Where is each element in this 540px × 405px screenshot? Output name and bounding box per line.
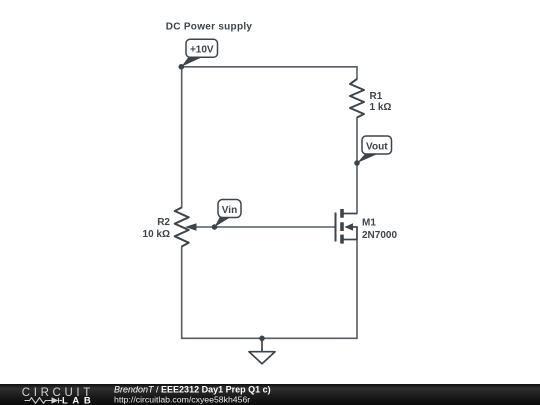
potentiometer R2 bbox=[175, 208, 189, 247]
M1 channel dash top bbox=[340, 209, 344, 218]
M1 drain lead bbox=[343, 213, 357, 215]
svg-text:DC Power supply: DC Power supply bbox=[166, 22, 253, 33]
M1 channel dash bottom bbox=[340, 235, 344, 244]
M1 body lead bbox=[346, 227, 357, 240]
net flag Vout bbox=[354, 136, 391, 166]
net flag Vin bbox=[212, 200, 241, 230]
svg-text:+10V: +10V bbox=[190, 44, 214, 55]
svg-text:R1: R1 bbox=[370, 91, 383, 102]
M1 source lead bbox=[343, 239, 357, 241]
wire left upper (+10V node to R2 top) bbox=[181, 67, 183, 208]
wire left lower (R2 bottom to bottom rail) bbox=[181, 247, 183, 339]
CircuitLab logo resistor+diode glyph bbox=[25, 398, 63, 404]
svg-text:2N7000: 2N7000 bbox=[362, 230, 397, 241]
svg-text:1 kΩ: 1 kΩ bbox=[370, 102, 392, 113]
wire gate (pot wiper to M1 gate) bbox=[194, 226, 336, 228]
svg-text:BrendonT / EEE2312 Day1 Prep Q: BrendonT / EEE2312 Day1 Prep Q1 c) bbox=[114, 385, 271, 395]
ground junction dot bbox=[259, 336, 265, 342]
M1 channel dash middle bbox=[340, 222, 344, 231]
ground bbox=[249, 338, 275, 364]
svg-text:R2: R2 bbox=[157, 217, 170, 228]
resistor R1 bbox=[350, 79, 364, 118]
wire bottom rail bbox=[182, 337, 357, 339]
svg-text:10 kΩ: 10 kΩ bbox=[143, 229, 170, 240]
net flag +10V bbox=[179, 39, 218, 69]
svg-text:http://circuitlab.com/cxyee58k: http://circuitlab.com/cxyee58kh456r bbox=[114, 394, 250, 404]
wire right upper (top rail to R1) bbox=[356, 67, 358, 79]
potentiometer R2 wiper arrow bbox=[185, 223, 197, 231]
M1 body arrow bbox=[345, 223, 354, 230]
wire right lower (source to bottom rail) bbox=[356, 240, 358, 339]
svg-text:Vin: Vin bbox=[222, 205, 237, 216]
svg-text:LAB: LAB bbox=[62, 396, 91, 405]
wire top rail bbox=[182, 66, 357, 68]
svg-text:Vout: Vout bbox=[366, 142, 388, 153]
svg-text:M1: M1 bbox=[362, 218, 376, 229]
M1 gate plate bbox=[335, 213, 337, 242]
wire right middle (R1 to drain corner through Vout node) bbox=[356, 118, 358, 214]
transistor M1 (NMOS 2N7000) bbox=[336, 209, 358, 244]
